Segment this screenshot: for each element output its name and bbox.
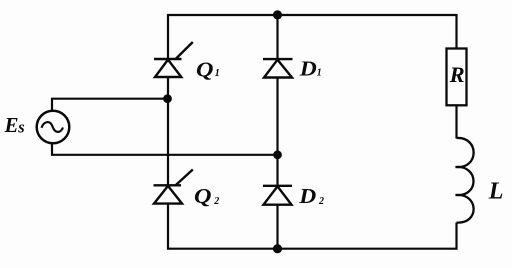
wire source bottom horizontal to D node — [51, 154, 278, 156]
wire source top stub — [51, 99, 53, 111]
label Es — [4, 113, 25, 137]
wire right vertical middle (R to L) — [455, 105, 457, 138]
svg-text:2: 2 — [318, 196, 324, 207]
inductor L — [456, 138, 474, 223]
node junction dot at D1-D2 midpoint — [273, 150, 282, 159]
wire bottom rail — [167, 248, 458, 250]
diode D1 — [263, 59, 293, 77]
svg-text:s: s — [17, 117, 24, 136]
wire right vertical lower (L to bottom rail) — [455, 223, 457, 250]
wire middle vertical center (D1 to D2) — [276, 78, 278, 186]
label Q2 — [194, 184, 219, 208]
wire left vertical lower (Q2 to bottom rail) — [167, 204, 169, 250]
wire top rail — [167, 14, 458, 16]
svg-text:R: R — [449, 62, 465, 87]
label Q1 — [196, 57, 220, 81]
svg-text:2: 2 — [213, 196, 219, 207]
svg-text:Q: Q — [196, 57, 214, 81]
svg-text:D: D — [299, 56, 318, 80]
wire source top horizontal to Q node — [51, 98, 168, 100]
label D2 — [298, 184, 324, 208]
node junction dot top rail — [273, 10, 282, 19]
svg-text:L: L — [488, 179, 504, 205]
wire source bottom stub — [51, 143, 53, 155]
thyristor Q1 — [154, 42, 193, 77]
wire middle vertical lower (D2 to bottom dot) — [276, 205, 278, 249]
wire middle vertical upper (top dot to D1) — [276, 15, 278, 59]
svg-text:E: E — [4, 113, 19, 137]
svg-text:D: D — [298, 184, 317, 208]
resistor R — [447, 49, 467, 106]
node junction dot bottom rail — [273, 244, 282, 253]
svg-text:1: 1 — [215, 68, 220, 79]
svg-text:1: 1 — [317, 68, 322, 79]
sine wave inside source — [42, 122, 64, 132]
thyristor Q2 — [154, 170, 193, 204]
wire left vertical middle (Q1 to Q2) — [167, 77, 169, 185]
wire left vertical upper (top rail to Q1) — [167, 14, 169, 59]
source Es circle — [37, 111, 70, 144]
svg-text:Q: Q — [194, 184, 212, 208]
node junction dot at Q1-Q2 midpoint — [163, 94, 172, 103]
wire right vertical upper (top rail to R) — [455, 14, 457, 49]
label D1 — [299, 56, 322, 80]
diode D2 — [263, 186, 292, 205]
